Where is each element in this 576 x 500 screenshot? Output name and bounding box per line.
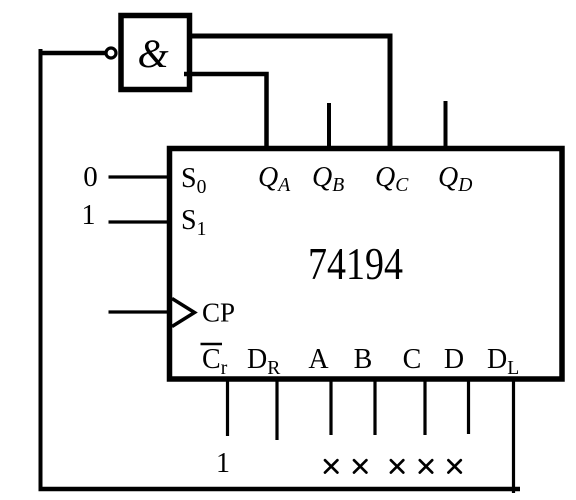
svg-text:B: B [354,344,373,375]
wire: feedback bottom horizontal [39,487,521,492]
label x (don't care) 5 [448,460,460,472]
svg-text:A: A [308,344,329,375]
wire: C stub [423,380,426,435]
svg-text:D: D [444,344,464,375]
wire: QB output stub [327,103,331,150]
wire: S0 input [109,175,169,178]
wire: D stub [467,380,470,434]
label x (don't care) 3 [391,460,403,472]
label x (don't care) 4 [420,460,432,472]
svg-text:&: & [137,31,168,76]
wire: B stub [373,380,376,435]
wire: gate top output to QC pin [192,36,390,150]
svg-text:74194: 74194 [308,239,403,289]
wire: Cr stub [226,380,229,436]
wire: feedback input to gate [39,51,106,56]
wire: A stub [329,380,332,435]
svg-text:1: 1 [216,448,230,479]
and-gate U1 box [121,16,190,90]
wire: CP clock input [109,310,169,313]
wire: DR stub [275,380,278,440]
svg-text:CP: CP [202,298,235,328]
label x (don't care) 1 [325,460,337,472]
wire: gate lower output to QA pin [184,74,267,150]
inverting input bubble [106,48,116,58]
wire: S1 input [109,220,169,223]
label x (don't care) 2 [354,460,366,472]
svg-text:0: 0 [83,161,98,193]
chip 74194 body [170,149,563,380]
wire: feedback left vertical [39,49,43,491]
wire: QD output stub [444,101,448,150]
wire: DL input from feedback [512,380,515,493]
svg-text:1: 1 [82,200,96,231]
svg-text:C: C [403,344,422,375]
clock triangle [172,299,195,327]
